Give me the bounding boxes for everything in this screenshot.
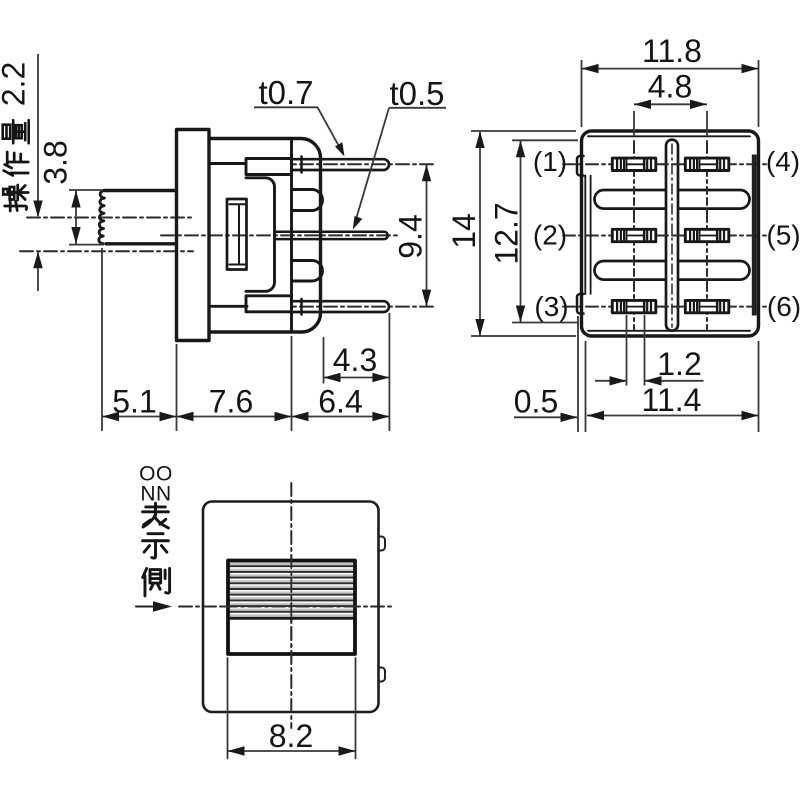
svg-text:6.4: 6.4: [318, 384, 362, 420]
plunger slot outer: [227, 199, 247, 270]
horizontal slot upper: [595, 190, 750, 209]
terminal bump upper: [292, 190, 323, 211]
svg-text:3.8: 3.8: [38, 140, 74, 184]
left tab lower: [577, 294, 584, 314]
centerline middle pin: [161, 234, 400, 236]
dim 9.4 vertical: [426, 164, 428, 306]
cover inner vertical: [290, 139, 293, 332]
middle pin lead: [276, 232, 388, 239]
centerline segments over slots: [634, 187, 707, 283]
svg-text:8.2: 8.2: [269, 718, 313, 754]
plunger slot inner lines: [230, 204, 245, 264]
indicator arrow: [136, 606, 158, 608]
svg-text:11.8: 11.8: [642, 33, 702, 69]
svg-text:1.2: 1.2: [657, 346, 701, 382]
right rail bar: [752, 155, 757, 316]
dim 12.7: [512, 140, 578, 322]
face outline: [203, 502, 379, 713]
body inner outline bottom: [588, 330, 750, 332]
svg-text:(6): (6): [767, 291, 800, 322]
label 側: [143, 568, 170, 595]
dim line 2.2 vertical: [37, 54, 39, 291]
redraw verticals over pins: [290, 155, 293, 314]
left rail groove: [585, 176, 590, 295]
svg-text:(1): (1): [533, 146, 567, 177]
bezel flange: [177, 130, 210, 341]
svg-text:0.5: 0.5: [514, 384, 558, 420]
top pin base box: [246, 159, 292, 175]
pin 4: [685, 158, 729, 170]
column centerline right: [706, 141, 708, 330]
pin anchor tick top: [300, 157, 303, 173]
bottom pin base box: [246, 296, 292, 312]
body inner outline top: [588, 135, 750, 137]
svg-text:4.8: 4.8: [648, 69, 692, 105]
svg-text:4.3: 4.3: [333, 342, 377, 378]
svg-text:9.4: 9.4: [393, 214, 429, 258]
dim 11.8: [582, 60, 759, 127]
joint line bezel-to-bottom-box: [209, 305, 247, 308]
button knob with knurled edge: [105, 191, 177, 244]
horizontal slot lower: [595, 261, 750, 280]
centerline pressed position: [20, 250, 193, 252]
svg-text:14: 14: [446, 213, 482, 249]
right tab lower: [379, 668, 386, 682]
row centerline 1: [563, 163, 766, 165]
terminal bump lower: [292, 261, 323, 282]
top pin lead: [292, 159, 390, 170]
cover outline: [209, 139, 321, 333]
horizontal centerline over button: [224, 606, 360, 608]
label 表: [143, 503, 169, 528]
vertical label 操: [3, 185, 28, 211]
left tab upper: [577, 156, 584, 176]
body outline: [582, 131, 759, 336]
button ridge bottom line: [228, 617, 355, 620]
centerline bottom pin: [252, 306, 433, 308]
button ridged area: [230, 562, 354, 618]
pin 3: [612, 300, 656, 312]
central vertical slot: [666, 140, 678, 331]
joint line bezel-to-top-box: [209, 162, 246, 165]
dim 8.2: [228, 658, 356, 759]
pin 2: [612, 229, 656, 241]
vertical centerline: [290, 483, 292, 728]
button outline: [228, 561, 355, 655]
bottom pin lead: [292, 301, 390, 312]
svg-text:2.2: 2.2: [0, 62, 32, 106]
row centerline 2: [563, 235, 766, 237]
pin 6: [685, 300, 729, 312]
pin 5: [685, 229, 729, 241]
inner contact block C-line: [246, 178, 275, 291]
dim 11.4: [758, 341, 760, 432]
svg-text:12.7: 12.7: [489, 202, 525, 264]
dim 4.3: [324, 313, 390, 431]
horizontal centerline: [179, 606, 393, 608]
dim 5.1 / 7.6 / 6.4 line: [102, 416, 389, 418]
vertical centerline over button: [290, 555, 292, 660]
central slot centerline: [671, 144, 673, 327]
pin 1: [612, 158, 656, 170]
svg-text:t0.5: t0.5: [389, 75, 444, 112]
dim 4.8: [634, 111, 707, 136]
dim 0.5: [578, 316, 586, 432]
pin anchor tick bottom: [300, 299, 303, 315]
bottom dim extension lines: [102, 248, 292, 431]
centerline top pin: [252, 163, 433, 165]
dim line 3.8 vertical: [75, 191, 77, 245]
vertical label 作: [4, 152, 29, 176]
svg-text:11.4: 11.4: [642, 382, 702, 418]
svg-text:(2): (2): [533, 220, 567, 251]
svg-text:(4): (4): [766, 146, 800, 177]
svg-text:(3): (3): [534, 291, 568, 322]
dim 1.2: [627, 315, 645, 386]
right tab upper: [379, 537, 386, 551]
vertical label 量: [3, 120, 29, 143]
dim 14: [471, 131, 576, 336]
svg-text:5.1: 5.1: [112, 384, 156, 420]
svg-text:7.6: 7.6: [209, 384, 253, 420]
column centerline left: [633, 141, 635, 330]
svg-text:t0.7: t0.7: [258, 74, 313, 111]
label 示: [143, 534, 169, 558]
row centerline 3: [563, 306, 766, 308]
centerline free position: [27, 217, 193, 219]
dim 3.8 extension lines: [69, 190, 104, 245]
svg-text:(5): (5): [766, 220, 800, 251]
